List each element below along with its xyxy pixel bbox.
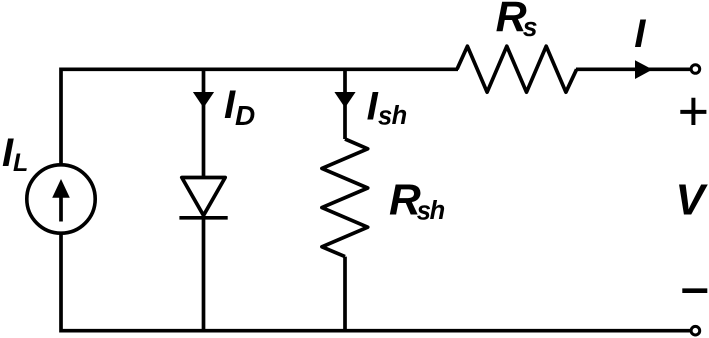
svg-text:h: h <box>430 197 446 225</box>
svg-text:h: h <box>392 102 408 130</box>
wire: shunt branch lower <box>343 257 347 331</box>
current source IL circle <box>27 165 95 233</box>
svg-text:s: s <box>523 12 538 42</box>
minus sign <box>682 288 707 293</box>
current source IL arrow head <box>52 179 70 198</box>
terminal node: top right <box>691 65 700 74</box>
svg-text:s: s <box>378 103 392 131</box>
svg-text:I: I <box>367 84 379 128</box>
current arrow Ish head <box>334 92 355 108</box>
svg-text:L: L <box>13 149 28 177</box>
current arrow I head (output) <box>635 60 653 79</box>
diode D1 triangle (anode) <box>182 178 225 216</box>
wire: diode branch upper <box>202 69 206 178</box>
diode D1 cathode bar <box>179 216 227 220</box>
wire: left branch bottom + bottom bus to terminal <box>61 234 691 331</box>
svg-text:V: V <box>675 176 708 225</box>
current arrow ID head <box>193 92 214 108</box>
wire: shunt branch upper <box>343 69 347 139</box>
resistor Rs (series) zigzag <box>457 46 577 92</box>
resistor Rsh (shunt) zigzag <box>322 139 368 257</box>
svg-text:D: D <box>235 100 255 131</box>
plus sign <box>680 98 706 125</box>
current source IL arrow shaft <box>59 195 63 222</box>
wire: left branch top (node A to current source) <box>61 69 458 164</box>
wire: top right segment (Rs to terminal) <box>576 67 691 71</box>
svg-text:I: I <box>634 12 646 56</box>
terminal node: bottom right <box>691 326 700 335</box>
wire: diode branch lower <box>202 218 206 331</box>
